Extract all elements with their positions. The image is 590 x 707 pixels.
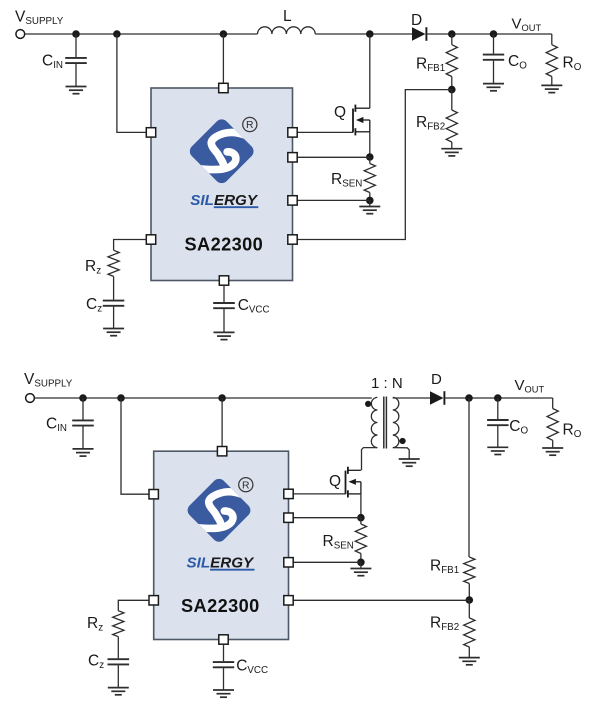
- transformer secondary coil: [393, 397, 399, 447]
- resistor R_FB2 (bottom): [464, 618, 475, 647]
- pin VIN top (bottom IC): [217, 447, 226, 456]
- wire C_IN lower lead (bottom): [82, 426, 84, 449]
- wire IC pin 3 to sense node (top): [297, 199, 370, 201]
- wire IC left pin 2 to R_z (top): [114, 240, 147, 251]
- svg-text:RFB1: RFB1: [416, 56, 445, 75]
- pin FB (top IC): [288, 235, 297, 244]
- svg-text:D: D: [431, 371, 442, 388]
- wire C_IN upper lead (top): [75, 34, 77, 57]
- wire rail to IC left pin 1 (bottom): [121, 398, 149, 494]
- wire Q source down (top): [369, 132, 371, 157]
- wire R_SEN bottom (bottom): [360, 554, 362, 563]
- svg-text:D: D: [411, 12, 422, 29]
- wire IC pin 2 to source node (bottom): [293, 517, 361, 519]
- capacitor C_IN (bottom): [72, 420, 94, 425]
- svg-text:VOUT: VOUT: [515, 377, 545, 395]
- wire rail to R_O (top): [551, 34, 553, 45]
- wire R_z to C_z (top): [113, 276, 115, 299]
- wire C_O upper lead (top): [493, 34, 495, 54]
- logo text SILERGY (bottom): [187, 555, 256, 572]
- pin FB (bottom IC): [284, 596, 293, 605]
- wire C_O lower lead (bottom): [497, 426, 499, 447]
- ground below R_O (top): [541, 85, 562, 92]
- wire to R_SEN (top): [369, 157, 371, 164]
- wire C_VCC to ground (top): [223, 309, 225, 332]
- wire IC gate pin to Q gate (bottom): [293, 493, 346, 495]
- wire to R_SEN (bottom): [360, 518, 362, 524]
- svg-text:CIN: CIN: [42, 53, 63, 72]
- svg-text:CO: CO: [509, 418, 528, 437]
- wire Q source down (bottom): [360, 494, 362, 518]
- svg-text:Cz: Cz: [88, 653, 104, 672]
- svg-text:CO: CO: [508, 53, 527, 72]
- wire top rail left segment (top): [25, 33, 258, 35]
- transformer primary coil: [371, 397, 377, 447]
- logoBot: [185, 476, 253, 544]
- resistor R_O (bottom): [547, 409, 558, 441]
- junction R_SEN/sense pin (bottom): [357, 559, 365, 567]
- junction VIN pin node (bottom): [117, 394, 125, 402]
- wire rail to IC top pin (bottom): [221, 398, 223, 447]
- svg-text:RSEN: RSEN: [331, 171, 362, 190]
- pin 2 right (top IC): [288, 153, 297, 162]
- junction C_O node (bottom): [494, 394, 502, 402]
- resistor R_SEN (top): [364, 164, 375, 193]
- junction source/R_SEN (top): [366, 153, 374, 161]
- svg-text:SA22300: SA22300: [185, 235, 264, 255]
- pin sense (top IC): [288, 196, 297, 205]
- resistor R_FB1 (top): [446, 45, 457, 77]
- secondary phase dot: [400, 438, 406, 444]
- wire C_z to ground (bottom): [117, 665, 119, 687]
- wire R_FB1 to junction (bottom): [468, 584, 470, 601]
- wire C_z to ground (top): [113, 307, 115, 329]
- svg-text:Q: Q: [334, 104, 346, 121]
- wire long feedback drop (bottom): [468, 398, 470, 557]
- wire sense node to ground (bottom): [360, 562, 362, 568]
- wire top rail mid segment (top): [315, 33, 412, 35]
- pin left 2 (bottom IC): [149, 596, 158, 605]
- junction feedback divider (top): [448, 86, 456, 94]
- svg-text:Rz: Rz: [85, 258, 101, 277]
- wire top rail right segment (top): [427, 33, 551, 35]
- junction R_SEN/sense pin (top): [366, 197, 374, 205]
- pin 2 right (bottom IC): [284, 513, 293, 522]
- ground below R_O (bottom): [542, 448, 563, 455]
- resistor R_z (bottom): [113, 611, 124, 637]
- wire to R_FB1 (top): [451, 34, 453, 45]
- wire C_IN upper lead (bottom): [82, 398, 84, 420]
- wire sense node to ground (top): [369, 200, 371, 206]
- ground below C_IN (bottom): [73, 449, 94, 456]
- pin VCC bottom (top IC): [219, 276, 228, 285]
- ground below R_SEN (bottom): [350, 569, 371, 576]
- svg-text:VOUT: VOUT: [512, 16, 542, 34]
- svg-text:RFB2: RFB2: [430, 615, 459, 634]
- pin VIN top (top IC): [219, 83, 228, 92]
- terminal V_SUPPLY (top circuit): [16, 30, 25, 39]
- logoTop: [187, 117, 256, 186]
- pin gate (bottom IC): [284, 489, 293, 498]
- svg-text:R: R: [246, 120, 254, 131]
- wire R_z to C_z (bottom): [117, 637, 119, 659]
- wire drain of Q (top): [369, 34, 371, 108]
- svg-text:RO: RO: [563, 422, 582, 441]
- ground below C_O (top): [483, 84, 504, 91]
- ground below secondary winding: [399, 459, 420, 466]
- wire R_FB1 to junction (top): [451, 77, 453, 90]
- wire IC left pin 2 to R_z (bottom): [118, 600, 149, 610]
- svg-text:VSUPPLY: VSUPPLY: [24, 371, 73, 390]
- diode D (top): [412, 27, 426, 41]
- svg-text:R: R: [242, 480, 250, 491]
- junction C_O node (top): [490, 30, 498, 38]
- svg-text:RSEN: RSEN: [323, 533, 354, 552]
- ground below C_O (bottom): [487, 447, 508, 454]
- registered mark (top logo): [243, 117, 257, 131]
- junction V_OUT feedback node (top): [448, 30, 456, 38]
- capacitor C_VCC (bottom): [213, 662, 234, 667]
- wire secondary bottom to ground (bottom): [393, 448, 409, 459]
- ground below R_FB2 (top): [441, 149, 462, 156]
- wire rail to IC left pin 1 (top): [117, 34, 147, 132]
- wire IC gate pin to Q gate (top): [297, 131, 353, 133]
- pin gate (top IC): [288, 128, 297, 137]
- wire C_VCC to ground (bottom): [223, 668, 225, 690]
- ground below C_z (top): [103, 329, 124, 336]
- junction feedback divider (bottom): [466, 596, 474, 604]
- wire output rail (bottom): [445, 397, 552, 399]
- junction IC top pin node (bottom): [218, 394, 226, 402]
- capacitor C_IN (top): [65, 58, 87, 63]
- junction IC top pin node (top): [220, 30, 228, 38]
- pin left 1 (bottom IC): [149, 490, 158, 499]
- pin VCC bottom (bottom IC): [219, 635, 228, 644]
- wire R_O to ground (top): [551, 77, 553, 86]
- svg-text:L: L: [283, 8, 292, 25]
- capacitor C_z (top): [103, 301, 125, 306]
- wire FB pin to divider (bottom): [293, 599, 469, 601]
- wire IC bottom pin to C_VCC (top): [223, 285, 225, 302]
- capacitor C_O (bottom): [487, 420, 509, 425]
- pin left 1 (top IC): [146, 128, 155, 137]
- svg-text:1 : N: 1 : N: [371, 375, 403, 392]
- resistor R_FB1 (bottom): [464, 557, 475, 584]
- transformer core: [384, 397, 387, 449]
- ground below C_z (bottom): [108, 688, 129, 695]
- wire primary bottom to Q drain (bottom): [362, 448, 378, 471]
- op-amp IC U1 SA22300 (top circuit): [151, 88, 293, 281]
- inductor L: [258, 27, 316, 34]
- junction C_IN node (bottom): [79, 394, 87, 402]
- resistor R_FB2 (top): [446, 110, 457, 142]
- transistor Q (bottom circuit): [346, 467, 361, 498]
- registered mark (bottom logo): [239, 478, 253, 492]
- wire C_O upper lead (bottom): [497, 398, 499, 419]
- wire junction to R_FB2 (top): [451, 90, 453, 110]
- wire rail to IC top pin (top): [222, 34, 224, 84]
- resistor R_O (top): [546, 45, 557, 77]
- svg-text:VSUPPLY: VSUPPLY: [15, 9, 64, 28]
- ground below R_SEN (top): [359, 207, 380, 214]
- wire feedback to IC pin FB (top): [297, 90, 452, 240]
- junction VIN pin node (top): [113, 30, 121, 38]
- svg-text:CVCC: CVCC: [238, 297, 270, 316]
- wire R_FB2 to ground (bottom): [468, 647, 470, 658]
- junction source/R_SEN (bottom): [357, 514, 365, 522]
- svg-text:RFB2: RFB2: [416, 114, 445, 133]
- capacitor C_O (top): [483, 55, 504, 60]
- svg-text:SA22300: SA22300: [181, 596, 260, 616]
- logo text SILERGY (top): [190, 192, 259, 209]
- wire rail to R_O (bottom): [552, 398, 554, 409]
- resistor R_SEN (bottom): [355, 524, 366, 554]
- wire C_O lower lead (top): [493, 61, 495, 84]
- wire top rail (bottom circuit): [34, 397, 371, 399]
- capacitor C_VCC (top): [213, 303, 235, 308]
- wire IC pin 3 to sense node (bottom): [293, 561, 361, 563]
- svg-text:RFB1: RFB1: [430, 558, 459, 577]
- wire C_IN lower lead (top): [75, 64, 77, 87]
- svg-text:CVCC: CVCC: [236, 658, 268, 677]
- svg-text:CIN: CIN: [46, 416, 67, 435]
- transistor Q (top circuit): [353, 105, 370, 136]
- diode D (bottom): [430, 391, 444, 405]
- wire R_SEN bottom (top): [369, 193, 371, 201]
- wire R_FB2 to ground (top): [451, 142, 453, 149]
- svg-text:Q: Q: [329, 473, 341, 490]
- ground below C_VCC (bottom): [213, 690, 234, 697]
- ground below R_FB2 (bottom): [459, 658, 480, 665]
- primary phase dot: [365, 401, 371, 407]
- capacitor C_z (bottom): [108, 659, 130, 664]
- terminal V_SUPPLY (bottom circuit): [26, 394, 35, 403]
- wire IC pin 2 to source node (top): [297, 156, 370, 158]
- op-amp IC U2 SA22300 (bottom circuit): [154, 451, 289, 639]
- resistor R_z (top): [108, 250, 119, 276]
- ground below C_IN (top): [66, 87, 87, 94]
- svg-text:Cz: Cz: [86, 296, 102, 315]
- svg-text:Rz: Rz: [87, 615, 103, 634]
- pin left 2 (top IC): [146, 235, 155, 244]
- wire IC bottom pin to C_VCC (bottom): [223, 644, 225, 661]
- wire junction to R_FB2 (bottom): [468, 600, 470, 618]
- junction C_IN node (top): [72, 30, 80, 38]
- svg-text:RO: RO: [563, 55, 582, 74]
- junction switch node (top): [366, 30, 374, 38]
- junction feedback tap node (bottom): [465, 394, 473, 402]
- ground below C_VCC (top): [214, 332, 235, 339]
- wire secondary to diode (bottom): [393, 397, 430, 399]
- pin sense (bottom IC): [284, 558, 293, 567]
- wire R_O to ground (bottom): [552, 440, 554, 448]
